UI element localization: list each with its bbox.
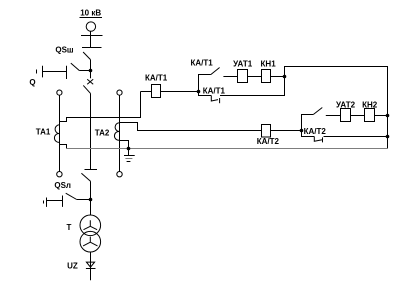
svg-text:КА/Т1: КА/Т1 (145, 73, 168, 82)
svg-text:QSл: QSл (54, 181, 71, 190)
svg-text:УАТ1: УАТ1 (233, 59, 253, 68)
svg-text:Т: Т (67, 223, 72, 232)
svg-text:КА/Т2: КА/Т2 (304, 127, 327, 136)
svg-text:КА/Т1: КА/Т1 (190, 58, 213, 67)
svg-text:QSш: QSш (55, 45, 74, 54)
svg-text:ТА2: ТА2 (95, 129, 110, 138)
svg-text:КН2: КН2 (362, 101, 378, 110)
svg-text:КН1: КН1 (261, 59, 277, 68)
svg-text:Q: Q (29, 78, 35, 87)
svg-text:КА/Т2: КА/Т2 (257, 137, 280, 146)
svg-text:УАТ2: УАТ2 (336, 101, 356, 110)
svg-text:ТА1: ТА1 (36, 128, 51, 137)
svg-text:10 кВ: 10 кВ (80, 9, 101, 18)
svg-text:КА/Т1: КА/Т1 (203, 87, 226, 96)
svg-text:UZ: UZ (67, 262, 78, 271)
